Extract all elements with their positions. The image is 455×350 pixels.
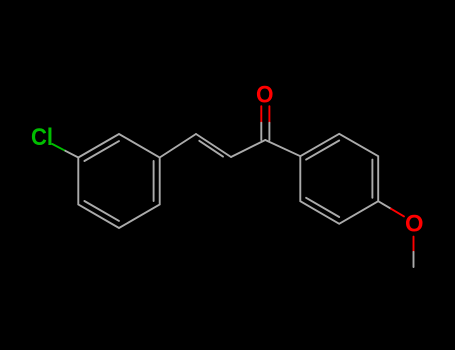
right ring inner aromatic line UL-T [306,141,339,160]
svg-text:O: O [256,82,274,109]
bond para-O red half [391,209,404,217]
bond carbonyl-ipso right ring [265,140,300,156]
svg-text:O: O [405,211,424,238]
bond CHalpha-C carbonyl [231,140,265,157]
bond ring-CHbeta [160,134,196,158]
left ring inner aromatic line UR-LR [153,161,155,201]
bond para-O gray half [378,201,391,209]
bond Cl-ring green half [52,144,65,151]
carbonyl C=O double line right gray half [268,123,270,140]
right ring inner aromatic line UR-LR [371,160,373,198]
carbonyl C=O double line left red half [260,106,262,123]
right benzene ring outer [300,134,378,224]
carbonyl C=O double line right red half [268,106,270,123]
left ring inner aromatic line B-LL [84,201,119,221]
bond CHbeta=CHalpha second line [199,141,223,157]
right ring inner aromatic line B-LL [306,198,339,217]
bond CHbeta=CHalpha main [196,134,231,157]
left benzene ring outer [78,134,159,228]
bond O-CH3 red half [413,237,415,252]
bond O-CH3 gray half [413,252,415,267]
carbonyl C=O double line left gray half [260,123,262,140]
left ring inner aromatic line UL-T [84,141,119,161]
bond Cl-ring gray half [65,151,78,158]
svg-text:Cl: Cl [31,124,53,151]
